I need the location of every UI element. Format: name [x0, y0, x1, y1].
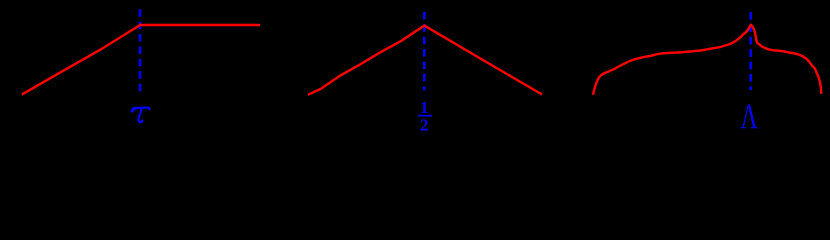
svg-text:Λ: Λ: [741, 96, 758, 136]
svg-text:2: 2: [420, 116, 429, 135]
svg-text:1: 1: [420, 98, 429, 117]
